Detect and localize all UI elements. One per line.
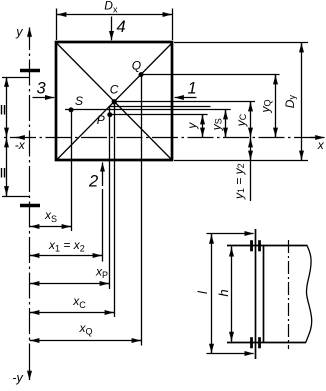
bottom edge extension right — [174, 160, 308, 162]
thin tick top left — [2, 77, 30, 79]
dim yS — [225, 110, 227, 138]
x axis — [2, 137, 319, 139]
svg-text:P: P — [97, 113, 105, 127]
square plate outline — [56, 42, 172, 160]
svg-text:Dx: Dx — [104, 0, 118, 14]
beam centre line — [288, 240, 290, 349]
point C — [112, 99, 117, 104]
dim y1=y2 — [250, 138, 252, 202]
dim h — [231, 247, 233, 342]
arrow 2 — [102, 162, 104, 186]
weld tick top left — [250, 240, 253, 251]
line above P — [110, 106, 211, 108]
inset l bottom connector — [207, 353, 254, 355]
svg-text:-y: -y — [12, 371, 23, 385]
svg-text:xP: xP — [95, 264, 108, 280]
svg-text:xC: xC — [72, 294, 86, 310]
beam top edge — [227, 245, 308, 247]
dim y — [202, 115, 204, 138]
vertical from Q — [141, 75, 143, 346]
thin tick bottom left — [2, 196, 30, 198]
svg-text:y: y — [15, 25, 23, 39]
beam left edge — [263, 246, 265, 343]
x axis left arrow — [16, 137, 26, 139]
equality mark upper — [1, 105, 3, 115]
equality mark lower — [1, 168, 3, 178]
svg-text:S: S — [75, 94, 83, 108]
svg-text:h: h — [216, 289, 231, 296]
vertical x1=x2 — [102, 189, 104, 262]
Dx extension left — [56, 9, 58, 41]
vertical from P — [109, 106, 111, 289]
inset l top connector — [207, 233, 254, 235]
arrow 4 — [111, 17, 113, 41]
svg-text:l: l — [195, 290, 210, 294]
plate seen edge-on — [255, 229, 257, 359]
dim Dy — [301, 43, 303, 161]
weld tick bottom left — [250, 337, 253, 348]
diagonal TR-BL — [57, 43, 173, 160]
svg-text:C: C — [110, 83, 119, 97]
svg-text:y1 = y2: y1 = y2 — [232, 163, 246, 200]
point Q — [139, 72, 144, 77]
C level line — [114, 101, 255, 103]
top edge extension right — [174, 42, 308, 44]
svg-text:Dy: Dy — [283, 95, 297, 109]
svg-text:yS: yS — [209, 118, 223, 131]
thick tick top on y axis — [20, 69, 40, 72]
arrow 1 — [175, 97, 197, 99]
left equal dimension line — [6, 78, 8, 197]
Q level line — [141, 74, 280, 76]
point P — [107, 112, 112, 117]
dim yC — [250, 102, 252, 138]
svg-text:1: 1 — [188, 80, 197, 98]
dim xQ — [30, 340, 142, 342]
svg-text:3: 3 — [37, 79, 47, 97]
dim xP — [30, 283, 110, 285]
svg-text:xQ: xQ — [79, 321, 93, 337]
dim xS — [30, 226, 72, 228]
arrow 3 — [33, 97, 55, 99]
vertical from S — [71, 110, 73, 231]
svg-text:yQ: yQ — [258, 99, 272, 113]
svg-text:x: x — [317, 138, 325, 152]
dim yQ — [275, 75, 277, 138]
svg-text:2: 2 — [88, 172, 98, 190]
dim xC — [30, 312, 115, 314]
svg-text:y: y — [185, 122, 199, 130]
svg-text:xS: xS — [44, 208, 57, 224]
dim l — [211, 234, 213, 354]
weld tick bottom right — [258, 337, 261, 348]
vertical from C — [114, 102, 116, 317]
Dx dimension line — [57, 14, 173, 16]
svg-text:-x: -x — [15, 138, 26, 152]
P level line — [110, 114, 208, 116]
svg-text:x1 = x2: x1 = x2 — [48, 238, 85, 254]
beam bottom edge — [227, 342, 306, 344]
diagonal TL-BR — [57, 43, 173, 160]
Dx extension right — [172, 9, 174, 41]
weld tick top right — [258, 240, 261, 251]
point S — [69, 107, 74, 112]
svg-text:Q: Q — [132, 59, 141, 73]
svg-text:4: 4 — [117, 18, 126, 36]
dim x1=x2 — [30, 255, 103, 257]
S level line — [65, 109, 231, 111]
thick tick bottom on y axis — [20, 204, 40, 207]
y axis — [29, 30, 31, 378]
break line — [306, 246, 312, 343]
svg-text:yC: yC — [234, 113, 248, 127]
